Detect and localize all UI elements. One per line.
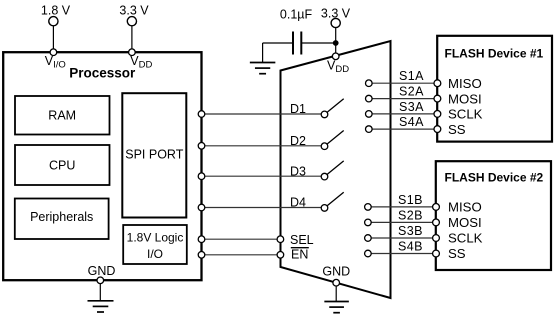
svg-text:I/O: I/O [147,247,163,261]
svg-text:3.3 V: 3.3 V [321,6,351,20]
svg-text:S3A: S3A [399,100,424,114]
svg-text:SS: SS [448,246,466,261]
svg-text:MISO: MISO [448,76,482,91]
svg-text:SS: SS [448,122,466,137]
svg-text:S2B: S2B [398,208,423,222]
svg-text:S4B: S4B [398,240,423,254]
svg-text:Processor: Processor [69,66,136,81]
svg-text:D4: D4 [290,196,306,210]
svg-text:S3B: S3B [398,224,423,238]
svg-text:1.8 V: 1.8 V [41,4,71,18]
svg-text:FLASH Device #1: FLASH Device #1 [445,47,544,61]
svg-text:MOSI: MOSI [448,91,482,106]
svg-text:S2A: S2A [399,85,424,99]
svg-text:GND: GND [322,264,350,278]
svg-text:S1A: S1A [399,69,424,83]
svg-text:D3: D3 [290,164,306,178]
svg-text:GND: GND [88,264,116,278]
svg-text:Peripherals: Peripherals [30,210,93,224]
svg-text:FLASH Device #2: FLASH Device #2 [445,170,544,184]
svg-text:SEL: SEL [290,233,314,247]
svg-text:CPU: CPU [49,159,75,173]
svg-text:MOSI: MOSI [448,215,482,230]
svg-text:0.1µF: 0.1µF [280,8,313,22]
svg-text:MISO: MISO [448,200,482,215]
svg-text:EN: EN [291,247,308,261]
svg-text:1.8V Logic: 1.8V Logic [127,231,184,245]
svg-text:S1B: S1B [398,193,423,207]
svg-text:SCLK: SCLK [448,107,483,122]
svg-text:D2: D2 [290,134,306,148]
svg-text:SPI PORT: SPI PORT [125,147,183,161]
svg-text:S4A: S4A [399,115,424,129]
svg-text:SCLK: SCLK [448,231,483,246]
svg-text:3.3 V: 3.3 V [119,4,149,18]
svg-text:RAM: RAM [48,109,76,123]
svg-text:D1: D1 [290,102,306,116]
